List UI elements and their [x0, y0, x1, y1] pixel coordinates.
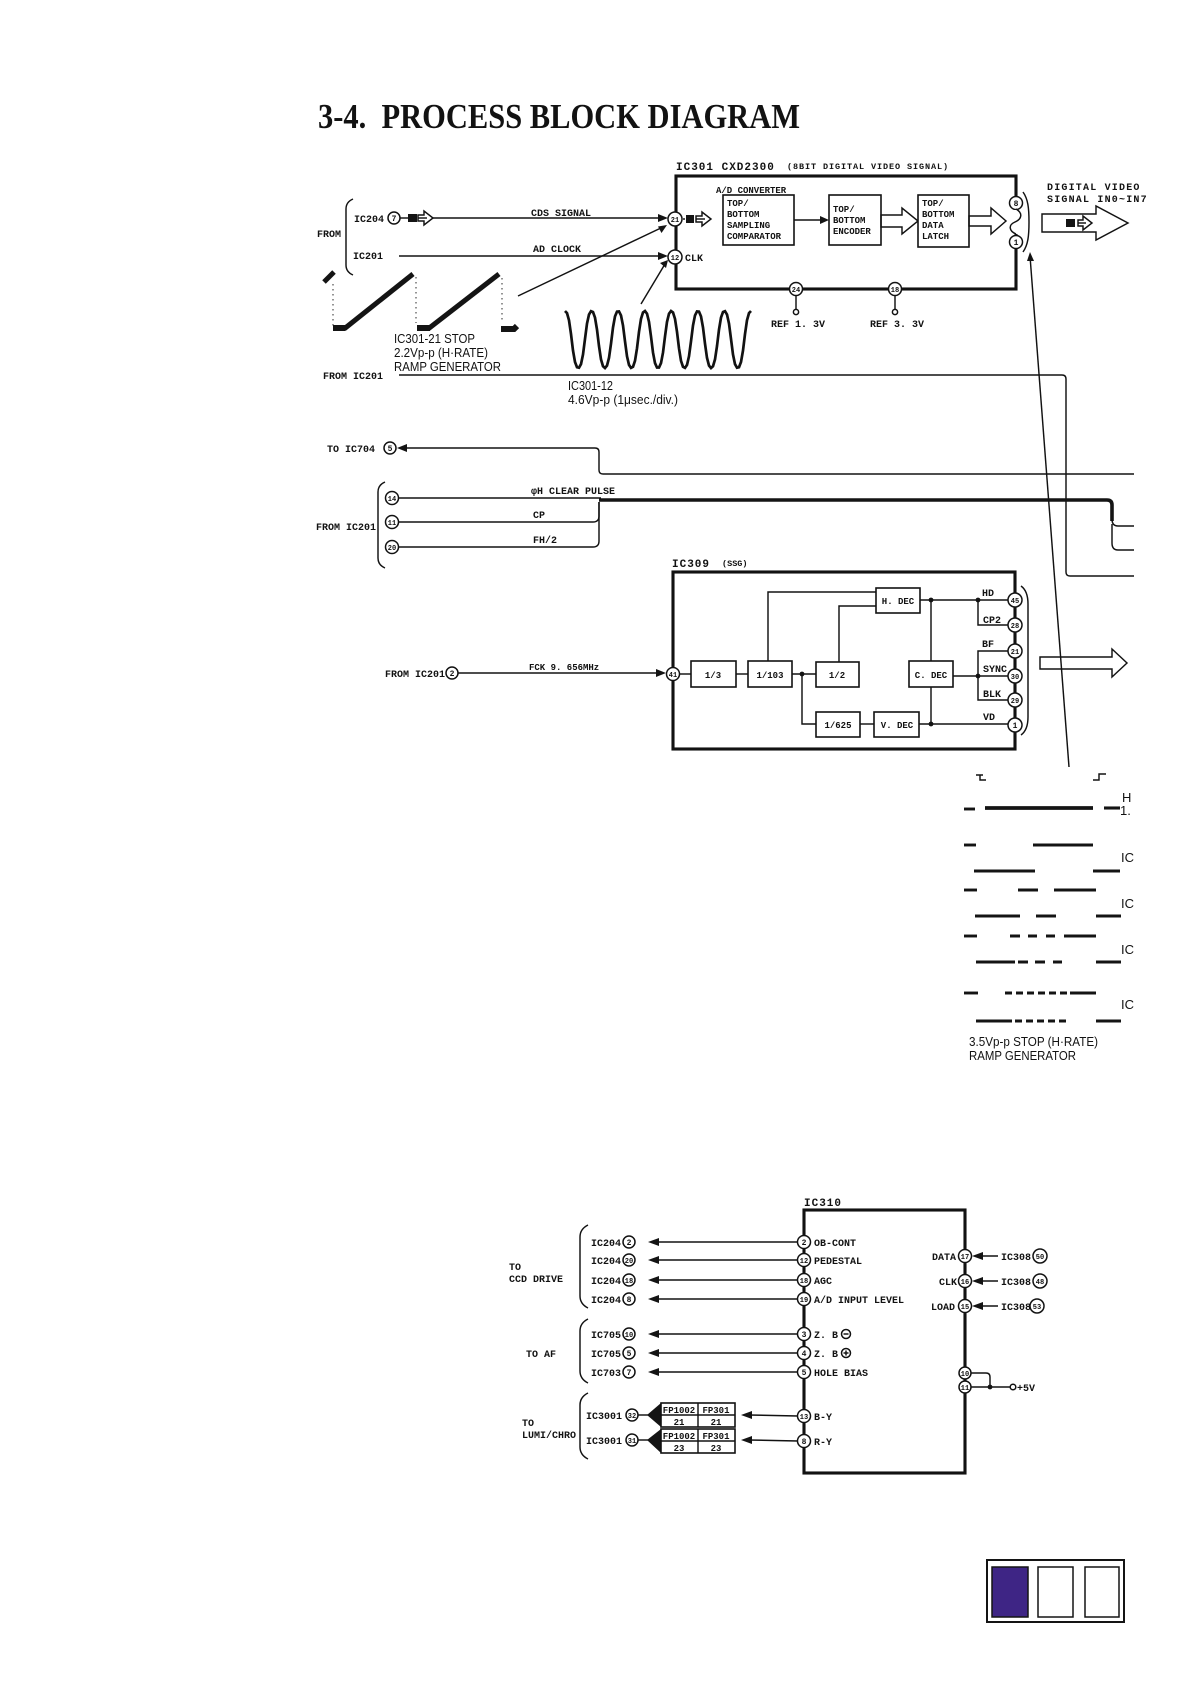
wire CDS SIGNAL: [433, 209, 668, 222]
wire TO IC704: [327, 442, 1134, 474]
svg-text:41: 41: [669, 672, 677, 680]
waveform row 5: [975, 914, 1121, 917]
svg-text:7: 7: [627, 1369, 632, 1378]
squiggle between pin 8 and pin 1: [1012, 210, 1020, 234]
svg-text:IC3001: IC3001: [586, 1412, 622, 1423]
svg-text:FROM IC201: FROM IC201: [323, 372, 383, 383]
wire junction down to 1/625: [802, 674, 816, 724]
pin 10 of IC310: [959, 1367, 971, 1379]
wire 1/2 top to H.DEC: [839, 606, 876, 662]
pin 19 of IC310 (A/D INPUT LEVEL): [798, 1293, 905, 1308]
svg-text:TOP/: TOP/: [922, 199, 944, 209]
svg-text:PEDESTAL: PEDESTAL: [814, 1257, 862, 1268]
pin 12 of IC310 (PEDESTAL): [798, 1254, 863, 1269]
pin 2 of IC310 (OB-CONT): [798, 1236, 857, 1251]
svg-text:IC703: IC703: [591, 1369, 621, 1380]
open arrow encoder to data latch: [881, 208, 918, 234]
block: top/bottom encoder: [829, 195, 881, 245]
svg-text:AGC: AGC: [814, 1277, 832, 1288]
svg-text:IC: IC: [1121, 997, 1134, 1012]
svg-text:C. DEC: C. DEC: [915, 671, 948, 681]
svg-text:18: 18: [800, 1278, 808, 1286]
pin 41 of IC309: [667, 668, 680, 681]
svg-text:3: 3: [802, 1331, 807, 1340]
block 1/103 divider: [748, 661, 792, 687]
svg-text:Z. B: Z. B: [814, 1350, 838, 1361]
pin 30 of IC309: [1008, 669, 1022, 683]
pin 5 of IC310 (HOLE BIAS): [798, 1366, 869, 1381]
svg-text:TO: TO: [522, 1419, 534, 1430]
svg-text:DATA: DATA: [932, 1253, 956, 1264]
svg-text:IC: IC: [1121, 896, 1134, 911]
pin 4 of IC310 (Z.B+): [798, 1347, 851, 1362]
svg-text:(8BIT DIGITAL VIDEO SIGNAL): (8BIT DIGITAL VIDEO SIGNAL): [787, 162, 949, 172]
svg-text:IC3001: IC3001: [586, 1437, 622, 1448]
node IC204 pin 7: [354, 211, 433, 226]
svg-text:FP1002: FP1002: [663, 1406, 695, 1416]
svg-text:IC308: IC308: [1001, 1278, 1031, 1289]
svg-text:18: 18: [625, 1278, 633, 1286]
node IC204 pin 18: [591, 1274, 635, 1288]
svg-text:SYNC: SYNC: [983, 665, 1007, 676]
svg-text:21: 21: [711, 1418, 722, 1428]
wire to pin 29 (BLK): [978, 676, 1008, 701]
svg-text:30: 30: [1011, 674, 1019, 682]
wire comparator to encoder: [794, 216, 829, 224]
wire OB-CONT: [648, 1238, 798, 1246]
ramp generator caption: [394, 331, 501, 374]
svg-text:IC301-21 STOP: IC301-21 STOP: [394, 331, 475, 346]
pointer line from sine to pin 12: [641, 260, 668, 304]
svg-text:φH CLEAR PULSE: φH CLEAR PULSE: [531, 487, 615, 498]
pin 12 CLK of IC301: [668, 250, 703, 265]
svg-text:BOTTOM: BOTTOM: [922, 210, 954, 220]
svg-text:V. DEC: V. DEC: [881, 721, 914, 731]
wire CLK from IC308: [972, 1274, 1047, 1289]
block 1/2 divider: [816, 662, 859, 687]
svg-text:VD: VD: [983, 713, 995, 724]
svg-text:SAMPLING: SAMPLING: [727, 221, 770, 231]
svg-text:H. DEC: H. DEC: [882, 597, 915, 607]
brace for pins 8~1: [1023, 192, 1029, 252]
waveform row 3: [974, 869, 1120, 872]
svg-text:28: 28: [1011, 623, 1019, 631]
wire LOAD from IC308: [972, 1299, 1044, 1314]
timing mark right: [1093, 774, 1106, 780]
svg-text:REF 1. 3V: REF 1. 3V: [771, 320, 825, 331]
pin 1 of IC301: [1010, 236, 1023, 249]
pin 18 of IC301 (REF 3.3V): [870, 283, 924, 332]
svg-text:21: 21: [671, 217, 679, 225]
svg-text:1/103: 1/103: [756, 671, 783, 681]
node IC705 pin 10: [591, 1328, 635, 1342]
pin 17 of IC310 (DATA): [932, 1250, 972, 1265]
wire pin41 to 1/3: [680, 673, 691, 675]
svg-text:IC301 CXD2300: IC301 CXD2300: [676, 162, 775, 174]
svg-text:FP301: FP301: [702, 1432, 730, 1442]
svg-text:A/D INPUT LEVEL: A/D INPUT LEVEL: [814, 1295, 904, 1307]
svg-text:FCK 9. 656MHz: FCK 9. 656MHz: [529, 663, 599, 673]
svg-text:31: 31: [628, 1438, 636, 1446]
svg-text:LOAD: LOAD: [931, 1303, 955, 1314]
wire C.DEC to pin 30 (SYNC): [953, 665, 1008, 678]
wire 1/103 to 1/2 with junction: [792, 672, 816, 677]
pin 8 of IC310 (R-Y): [798, 1435, 833, 1450]
svg-text:IC705: IC705: [591, 1350, 621, 1361]
svg-text:14: 14: [388, 496, 396, 504]
svg-text:CLK: CLK: [939, 1278, 957, 1289]
svg-text:IC301-12: IC301-12: [568, 378, 613, 393]
svg-text:11: 11: [961, 1385, 969, 1393]
svg-text:1/625: 1/625: [824, 721, 851, 731]
wire H.DEC line to C.DEC: [929, 598, 934, 661]
svg-text:1.: 1.: [1120, 803, 1131, 818]
svg-text:RAMP GENERATOR: RAMP GENERATOR: [969, 1048, 1076, 1063]
svg-text:2: 2: [627, 1239, 632, 1248]
svg-text:AD CLOCK: AD CLOCK: [533, 245, 581, 256]
svg-text:1: 1: [1013, 722, 1018, 731]
pin 8 of IC301: [1010, 197, 1023, 210]
svg-text:48: 48: [1036, 1279, 1044, 1287]
svg-text:BOTTOM: BOTTOM: [833, 216, 865, 226]
svg-text:2: 2: [802, 1239, 807, 1248]
node IC705 pin 5: [591, 1347, 635, 1361]
block: top/bottom sampling comparator: [723, 195, 794, 245]
pin 3 of IC310 (Z.B-): [798, 1328, 851, 1343]
wire H.DEC to pin 45 (HD): [920, 589, 1008, 602]
svg-text:FP301: FP301: [702, 1406, 730, 1416]
wire AGC: [648, 1276, 798, 1284]
pin 29 of IC309: [1008, 693, 1022, 707]
svg-text:IC: IC: [1121, 942, 1134, 957]
pin 13 of IC310 (B-Y): [798, 1410, 833, 1425]
svg-text:23: 23: [674, 1444, 685, 1454]
brace LUMI group: [580, 1393, 588, 1459]
wire Z.B plus: [648, 1349, 798, 1357]
wire V.DEC to pin 1 (VD): [919, 713, 1008, 724]
svg-text:1/3: 1/3: [705, 671, 721, 681]
svg-text:8: 8: [802, 1438, 807, 1447]
block 1/625 divider: [816, 712, 860, 737]
svg-text:24: 24: [792, 287, 800, 295]
wire PEDESTAL: [648, 1256, 798, 1264]
pin 45 of IC309: [1008, 593, 1022, 607]
svg-text:2.2Vp-p (H·RATE): 2.2Vp-p (H·RATE): [394, 345, 488, 360]
node IC204 pin 8: [591, 1293, 635, 1307]
open arrow data latch to output pins: [969, 208, 1006, 234]
waveform row 9: [976, 1019, 1121, 1022]
svg-text:CCD DRIVE: CCD DRIVE: [509, 1275, 563, 1286]
merged thick bus wire: [599, 500, 1112, 521]
waveform row 8: [964, 992, 1096, 995]
svg-text:LUMI/CHRO: LUMI/CHRO: [522, 1430, 576, 1442]
svg-text:DIGITAL VIDEO: DIGITAL VIDEO: [1047, 183, 1141, 194]
svg-text:10: 10: [625, 1332, 633, 1340]
svg-text:53: 53: [1033, 1304, 1041, 1312]
svg-text:12: 12: [671, 255, 679, 263]
bus split branch 1: [1112, 519, 1134, 526]
bus split branch 2: [1112, 524, 1134, 550]
pin 18 of IC310 (AGC): [798, 1274, 833, 1289]
IC310 block: [804, 1198, 965, 1473]
wire AD CLOCK: [399, 245, 668, 260]
pointer line from IC301 pins 8~1 to timing waveforms: [1027, 252, 1069, 767]
legend cell 3: [1085, 1567, 1119, 1617]
brace CCD drive group: [580, 1225, 588, 1308]
svg-text:32: 32: [628, 1413, 636, 1421]
connector flag R-Y: [647, 1429, 661, 1453]
svg-text:SIGNAL IN0~IN7: SIGNAL IN0~IN7: [1047, 195, 1148, 206]
brace for IC309 output pins: [1021, 586, 1028, 735]
svg-text:20: 20: [388, 545, 396, 553]
svg-text:2: 2: [450, 670, 455, 679]
svg-text:IC204: IC204: [591, 1277, 621, 1288]
pin 20 / FH/2 wire: [386, 502, 600, 554]
waveform row 6: [964, 935, 1096, 938]
svg-text:20: 20: [625, 1258, 633, 1266]
svg-text:5: 5: [627, 1350, 632, 1359]
pin 14 / H clear pulse wire: [386, 487, 616, 505]
TO LUMI/CHRO label: [522, 1419, 576, 1442]
legend cell 1 (filled purple): [992, 1567, 1028, 1617]
node IC204 pin 2: [591, 1236, 635, 1250]
svg-text:10: 10: [961, 1371, 969, 1379]
TO CCD DRIVE label: [509, 1263, 563, 1286]
legend outer box: [987, 1560, 1124, 1622]
svg-text:5: 5: [388, 445, 393, 454]
svg-text:3.5Vp-p STOP (H·RATE): 3.5Vp-p STOP (H·RATE): [969, 1034, 1098, 1049]
svg-text:7: 7: [392, 215, 397, 224]
connector table FP1002/FP301 21/21: [661, 1403, 735, 1428]
svg-text:8: 8: [627, 1296, 632, 1305]
svg-text:11: 11: [388, 520, 396, 528]
sine caption: [568, 378, 678, 407]
svg-text:19: 19: [800, 1297, 808, 1305]
svg-text:13: 13: [800, 1414, 808, 1422]
wire 1/625 to V.DEC: [860, 723, 874, 725]
svg-text:TOP/: TOP/: [727, 199, 749, 209]
svg-text:TO IC704: TO IC704: [327, 445, 375, 456]
node IC204 pin 20: [591, 1254, 635, 1268]
wire 1/103 top to H.DEC: [768, 592, 876, 661]
svg-text:8: 8: [1014, 200, 1019, 209]
IC309 block (SSG): [672, 559, 1015, 749]
svg-text:IC204: IC204: [591, 1296, 621, 1307]
pin 16 of IC310 (CLK): [939, 1275, 972, 1290]
node IC3001 pin 32: [586, 1409, 648, 1423]
svg-text:50: 50: [1036, 1254, 1044, 1262]
block: top/bottom data latch: [918, 195, 969, 247]
node IC703 pin 7: [591, 1366, 635, 1380]
svg-text:4.6Vp-p (1μsec./div.): 4.6Vp-p (1μsec./div.): [568, 392, 678, 407]
svg-text:RAMP GENERATOR: RAMP GENERATOR: [394, 359, 501, 374]
pin 11 of IC310: [959, 1381, 971, 1393]
svg-text:IC204: IC204: [354, 215, 384, 226]
svg-text:3-4. PROCESS BLOCK DIAGRAM: 3-4. PROCESS BLOCK DIAGRAM: [318, 97, 800, 136]
svg-text:+5V: +5V: [1017, 1384, 1035, 1395]
svg-text:29: 29: [1011, 698, 1019, 706]
pin 21 of IC301 (CDS input): [668, 212, 711, 226]
block V.DEC: [874, 712, 919, 737]
svg-text:TOP/: TOP/: [833, 205, 855, 215]
svg-text:FROM IC201: FROM IC201: [385, 670, 445, 681]
svg-text:(SSG): (SSG): [722, 559, 748, 569]
IC301 block CXD2300: [676, 162, 1016, 289]
svg-text:IC308: IC308: [1001, 1253, 1031, 1264]
svg-text:FROM: FROM: [317, 230, 341, 241]
wire B-Y: [741, 1411, 798, 1419]
wire DATA from IC308: [972, 1249, 1047, 1264]
svg-text:FH/2: FH/2: [533, 535, 557, 547]
connector flag B-Y: [647, 1403, 661, 1427]
waveform row 1 (H): [964, 790, 1131, 818]
block 1/3 divider: [691, 661, 736, 687]
svg-text:IC310: IC310: [804, 1198, 842, 1210]
wire to pin 28 (CP2): [978, 600, 1008, 627]
svg-text:45: 45: [1011, 598, 1019, 606]
svg-text:FP1002: FP1002: [663, 1432, 695, 1442]
ramp waveform (IC301-21): [324, 272, 517, 329]
wire +5V: [971, 1373, 1035, 1395]
svg-text:12: 12: [800, 1258, 808, 1266]
wire R-Y: [741, 1436, 798, 1444]
digital video signal label: [1047, 183, 1148, 206]
waveform row 2: [964, 844, 1093, 847]
svg-text:23: 23: [711, 1444, 722, 1454]
pin 24 of IC301 (REF 1.3V): [771, 283, 825, 332]
waveform row 4: [964, 889, 1096, 892]
FROM IC201 long wire: [323, 372, 1134, 576]
wire HOLE BIAS: [648, 1368, 798, 1376]
svg-text:BOTTOM: BOTTOM: [727, 210, 759, 220]
svg-text:CP: CP: [533, 511, 545, 522]
wire Z.B minus: [648, 1330, 798, 1338]
svg-text:IC308: IC308: [1001, 1303, 1031, 1314]
svg-text:IC309: IC309: [672, 559, 710, 571]
svg-text:5: 5: [802, 1369, 807, 1378]
svg-text:BF: BF: [982, 640, 994, 651]
svg-text:R-Y: R-Y: [814, 1438, 832, 1449]
svg-text:B-Y: B-Y: [814, 1413, 832, 1424]
legend cell 2: [1038, 1567, 1073, 1617]
pin 15 of IC310 (LOAD): [931, 1300, 972, 1315]
svg-text:15: 15: [961, 1304, 969, 1312]
svg-text:16: 16: [961, 1279, 969, 1287]
svg-text:COMPARATOR: COMPARATOR: [727, 232, 782, 242]
svg-text:HD: HD: [982, 589, 994, 600]
node IC3001 pin 31: [586, 1434, 648, 1448]
svg-text:OB-CONT: OB-CONT: [814, 1239, 856, 1250]
block H.DEC: [876, 588, 920, 613]
svg-text:17: 17: [961, 1254, 969, 1262]
svg-text:HOLE BIAS: HOLE BIAS: [814, 1369, 868, 1380]
pin 1 of IC309: [1008, 718, 1022, 732]
svg-text:TO AF: TO AF: [526, 1350, 556, 1361]
brace AF group: [580, 1319, 588, 1383]
svg-text:REF 3. 3V: REF 3. 3V: [870, 320, 924, 331]
ramp generator caption (right): [969, 1034, 1098, 1063]
pin 21 of IC309: [1008, 644, 1022, 658]
svg-text:DATA: DATA: [922, 221, 944, 231]
svg-text:21: 21: [1011, 649, 1019, 657]
svg-text:Z. B: Z. B: [814, 1331, 838, 1342]
svg-text:1: 1: [1014, 239, 1019, 248]
timing mark left: [976, 775, 986, 780]
connector table FP1002/FP301 23/23: [661, 1429, 735, 1454]
sine waveform (IC301-12): [565, 311, 751, 368]
svg-text:FROM IC201: FROM IC201: [316, 523, 376, 534]
svg-text:IC: IC: [1121, 850, 1134, 865]
svg-text:IC705: IC705: [591, 1331, 621, 1342]
waveform row 7: [976, 960, 1121, 963]
wire V.DEC line to C.DEC: [929, 687, 934, 726]
svg-text:18: 18: [891, 287, 899, 295]
pin 28 of IC309: [1008, 618, 1022, 632]
svg-text:IC204: IC204: [591, 1239, 621, 1250]
pin 11 / CP wire: [386, 502, 600, 529]
svg-text:CLK: CLK: [685, 254, 703, 265]
svg-text:ENCODER: ENCODER: [833, 227, 871, 237]
svg-text:4: 4: [802, 1350, 807, 1359]
wire A/D input level: [648, 1295, 798, 1303]
wire to pin 21 (BF): [978, 640, 1008, 676]
wire FCK 9.656MHz: [458, 663, 666, 677]
svg-text:IC201: IC201: [353, 252, 383, 263]
wire 1/3 to 1/103: [736, 673, 748, 675]
svg-text:LATCH: LATCH: [922, 232, 949, 242]
block C.DEC: [909, 661, 953, 687]
svg-text:21: 21: [674, 1418, 685, 1428]
node FROM IC201 pin 2: [385, 667, 458, 681]
digital video output bus arrow: [1042, 206, 1128, 240]
pointer line from ramp to pin 21: [518, 225, 667, 296]
svg-text:IC204: IC204: [591, 1257, 621, 1268]
svg-text:TO: TO: [509, 1263, 521, 1274]
svg-text:1/2: 1/2: [829, 671, 845, 681]
IC309 output bus arrow: [1040, 649, 1127, 677]
